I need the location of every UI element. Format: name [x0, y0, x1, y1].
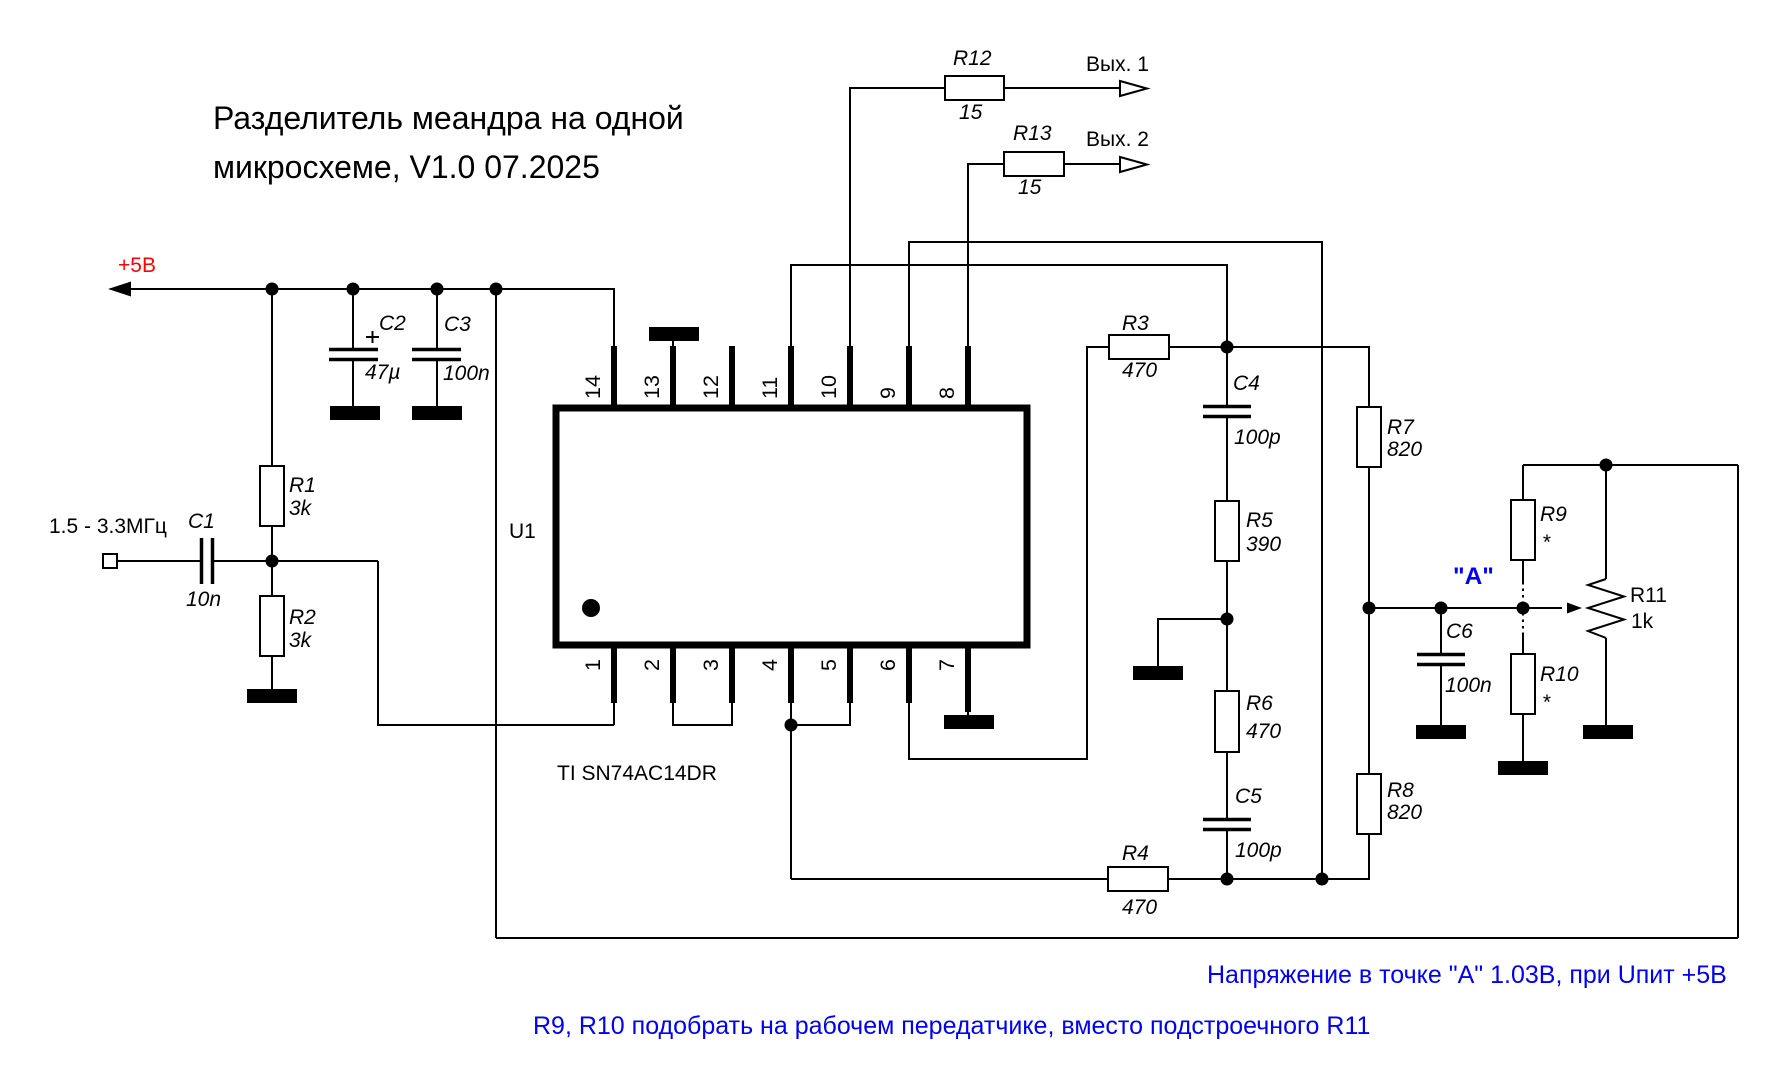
ground pin 7: [944, 715, 994, 729]
wire pin 5 to pin 4 node: [791, 703, 850, 725]
wire pin 4 down to R4 line: [790, 703, 792, 879]
resistor R7: [1357, 407, 1381, 467]
wire +5V drop to bottom rail: [495, 289, 497, 938]
svg-text:+5В: +5В: [118, 254, 156, 277]
pin 3 lead: [729, 643, 735, 703]
svg-text:6: 6: [876, 659, 900, 671]
resistor R13: [1004, 152, 1064, 176]
svg-text:R5: R5: [1246, 509, 1273, 532]
svg-text:10n: 10n: [186, 588, 221, 611]
junction input node: [266, 555, 279, 568]
junction node A at C6: [1435, 602, 1448, 615]
svg-text:R11: R11: [1630, 584, 1667, 607]
svg-text:R2: R2: [289, 606, 316, 629]
wire R4 right to R8 bottom: [1168, 834, 1369, 879]
+5V power arrow: [108, 282, 131, 297]
wire R8 top to node A: [1368, 608, 1370, 774]
svg-text:R9, R10 подобрать на рабочем п: R9, R10 подобрать на рабочем передатчике…: [533, 1012, 1370, 1040]
resistor R6: [1215, 691, 1239, 752]
wire node A horizontal: [1369, 607, 1562, 609]
ground C2: [330, 406, 380, 420]
svg-text:5: 5: [817, 659, 841, 671]
junction pin4/pin5: [785, 719, 798, 732]
capacitor C6 plates: [1417, 655, 1465, 665]
svg-text:"А": "А": [1453, 563, 1494, 590]
svg-text:15: 15: [959, 101, 983, 124]
svg-text:470: 470: [1122, 896, 1157, 919]
svg-text:Напряжение в точке "А" 1.03В,: Напряжение в точке "А" 1.03В, при Uпит +…: [1207, 961, 1727, 989]
junction R11 top: [1600, 459, 1613, 472]
pin 1 lead: [611, 643, 617, 703]
wire right-edge supply riser: [1737, 465, 1739, 938]
wire node A dotted link to R10: [1522, 613, 1524, 634]
svg-text:470: 470: [1122, 359, 1157, 382]
wire R6 to C5: [1226, 752, 1228, 819]
svg-text:15: 15: [1018, 176, 1042, 199]
svg-text:10: 10: [817, 375, 841, 399]
capacitor C4 plates: [1203, 407, 1251, 417]
junction +5V/bottom rail: [490, 283, 503, 296]
wire pin 6 to R3 left: [909, 347, 1109, 759]
svg-text:R8: R8: [1387, 779, 1414, 802]
wire pin 7 to ground: [967, 703, 969, 715]
svg-text:C2: C2: [379, 312, 406, 335]
ground R11: [1583, 725, 1633, 739]
wire +5V rail: [126, 289, 614, 346]
svg-text:микросхеме, V1.0 07.2025: микросхеме, V1.0 07.2025: [213, 149, 600, 185]
resistor R12: [945, 76, 1004, 100]
wire pin 9 riser across to right: [909, 242, 1322, 879]
resistor R5: [1215, 501, 1239, 561]
svg-text:C5: C5: [1235, 785, 1262, 808]
input terminal square: [103, 554, 117, 568]
wire R9 dotted link to node A: [1522, 582, 1524, 603]
resistor R4: [1108, 867, 1168, 891]
wire R11 bottom to ground: [1605, 638, 1607, 725]
pin 5 lead: [847, 643, 853, 703]
wire input terminal to C1: [117, 560, 200, 562]
wire C2 bottom to ground: [352, 360, 354, 406]
junction +5V/C3: [431, 283, 444, 296]
pin 14 lead: [611, 346, 617, 410]
pin 4 lead: [788, 643, 794, 703]
wire R3 right to R7 top: [1169, 347, 1369, 407]
capacitor C2 plus sign: [366, 331, 379, 343]
wire R7 bottom to node A: [1368, 467, 1370, 608]
svg-text:C6: C6: [1446, 620, 1473, 643]
wire R9 bottom solid part: [1522, 560, 1524, 582]
svg-text:R6: R6: [1246, 692, 1273, 715]
resistor R1: [260, 466, 284, 526]
svg-text:C4: C4: [1233, 372, 1260, 395]
svg-text:Вых. 2: Вых. 2: [1086, 128, 1149, 151]
svg-text:C3: C3: [444, 313, 471, 336]
pin 7 lead: [965, 643, 971, 712]
wire pin 8 riser to R13: [968, 164, 1004, 346]
wire C4 to R5: [1226, 417, 1228, 501]
wire R5 to R6: [1226, 561, 1228, 691]
wire C5 to R4 line: [1226, 830, 1228, 879]
svg-text:R9: R9: [1540, 503, 1567, 526]
wire C3 top: [436, 289, 438, 349]
svg-text:TI SN74AC14DR: TI SN74AC14DR: [557, 762, 717, 785]
junction R5/R6: [1221, 613, 1234, 626]
resistor R9: [1511, 500, 1535, 560]
svg-text:14: 14: [581, 375, 605, 399]
svg-text:Вых. 1: Вых. 1: [1086, 53, 1149, 76]
svg-text:820: 820: [1387, 801, 1422, 824]
junction +5V/C2: [347, 283, 360, 296]
resistor R8: [1357, 774, 1381, 834]
capacitor C1 plates: [202, 538, 213, 584]
junction pin9 line/R4 line: [1316, 873, 1329, 886]
pin 10 lead: [847, 346, 853, 410]
pin 8 lead: [965, 346, 971, 410]
wire C3 bottom to ground: [436, 360, 438, 406]
svg-text:8: 8: [935, 387, 959, 399]
svg-text:12: 12: [699, 375, 723, 399]
svg-text:2: 2: [640, 659, 664, 671]
pin 11 lead: [788, 346, 794, 410]
output 1 arrow: [1120, 81, 1147, 96]
svg-text:1k: 1k: [1631, 610, 1654, 633]
wire R1 bottom / R2 top: [271, 526, 273, 596]
svg-text:100n: 100n: [443, 362, 490, 385]
wire top-right supply line: [1523, 464, 1738, 466]
svg-text:*: *: [1542, 531, 1551, 554]
title text: [213, 100, 684, 185]
svg-text:1.5 - 3.3МГц: 1.5 - 3.3МГц: [49, 515, 167, 538]
svg-text:R3: R3: [1122, 312, 1149, 335]
svg-text:100p: 100p: [1234, 426, 1281, 449]
wire R10 bottom to ground: [1522, 714, 1524, 761]
svg-text:3k: 3k: [289, 629, 313, 652]
svg-text:390: 390: [1246, 533, 1281, 556]
op-amp U1 IC body SN74AC14DR: [556, 408, 1027, 645]
svg-text:Разделитель меандра на одной: Разделитель меандра на одной: [213, 100, 684, 136]
svg-text:R13: R13: [1013, 122, 1052, 145]
wire R13 to output 2 arrow: [1064, 163, 1122, 165]
wire C6 bottom to ground: [1440, 665, 1442, 725]
svg-text:3k: 3k: [289, 497, 313, 520]
svg-text:820: 820: [1387, 438, 1422, 461]
svg-text:R7: R7: [1387, 416, 1415, 439]
svg-text:U1: U1: [509, 520, 536, 543]
output 2 arrow: [1120, 157, 1147, 172]
svg-text:C1: C1: [188, 510, 215, 533]
wire pin 1 stub: [613, 703, 615, 725]
wire C6 top: [1440, 608, 1442, 654]
ground R5/R6 node: [1133, 666, 1183, 680]
wire pin4 line to R4: [791, 878, 1108, 880]
wire C2 top: [352, 289, 354, 349]
capacitor C2 plates: [329, 350, 378, 360]
junction R3/C4: [1221, 341, 1234, 354]
resistor R2: [260, 596, 284, 656]
wire R12 to output 1 arrow: [1004, 87, 1122, 89]
wire bottom supply rail: [496, 937, 1738, 939]
junction +5V/R1: [266, 283, 279, 296]
wire R9 top: [1522, 465, 1524, 500]
wire R11 top: [1605, 465, 1607, 579]
junction node A at R9/R10: [1517, 602, 1530, 615]
wire R10 top solid part: [1522, 634, 1524, 654]
pin 6 lead: [906, 643, 912, 703]
ground pin 13: [649, 327, 699, 341]
wire C4 node to C4: [1226, 347, 1228, 406]
svg-text:100p: 100p: [1235, 839, 1282, 862]
svg-text:470: 470: [1246, 720, 1281, 743]
svg-text:100n: 100n: [1445, 674, 1492, 697]
R11 wiper arrow: [1567, 603, 1582, 614]
svg-text:*: *: [1542, 691, 1551, 714]
wire pin 11 riser across to C4 node: [791, 265, 1227, 347]
pin 2 lead: [670, 643, 676, 703]
wire C1 to input node: [213, 560, 378, 562]
wire pin 2 to pin 3: [673, 703, 732, 725]
svg-text:9: 9: [876, 387, 900, 399]
ground R10: [1498, 761, 1548, 775]
wire R2 bottom to ground: [271, 656, 273, 689]
wire input node down and to pin 1: [378, 561, 614, 725]
pin 12 lead: [729, 346, 735, 410]
wire R5/R6 node ground stub: [1158, 619, 1227, 666]
ground C6: [1416, 725, 1466, 739]
svg-text:R1: R1: [289, 474, 316, 497]
capacitor C5 plates: [1203, 820, 1251, 830]
svg-text:3: 3: [699, 659, 723, 671]
svg-text:13: 13: [640, 375, 664, 399]
pin 13 lead: [670, 346, 676, 410]
wire pin 13 to ground: [672, 338, 674, 346]
resistor R10: [1511, 654, 1535, 714]
pin 9 lead: [906, 346, 912, 410]
svg-text:R10: R10: [1540, 663, 1579, 686]
capacitor C3 plates: [412, 350, 461, 360]
svg-text:1: 1: [581, 659, 605, 671]
svg-text:7: 7: [935, 659, 959, 671]
svg-text:4: 4: [758, 659, 782, 671]
junction C5/R4 line: [1221, 873, 1234, 886]
potentiometer R11 zigzag body: [1588, 579, 1624, 638]
wire R1 top: [271, 289, 273, 466]
svg-text:47µ: 47µ: [365, 361, 400, 384]
svg-text:R12: R12: [953, 47, 992, 70]
svg-text:R4: R4: [1122, 842, 1149, 865]
ground C3: [412, 406, 462, 420]
resistor R3: [1109, 335, 1169, 359]
wire pin 10 riser to R12: [850, 88, 945, 346]
junction node A at R7/R8: [1363, 602, 1376, 615]
ground R2: [247, 689, 297, 703]
svg-text:11: 11: [758, 377, 782, 399]
